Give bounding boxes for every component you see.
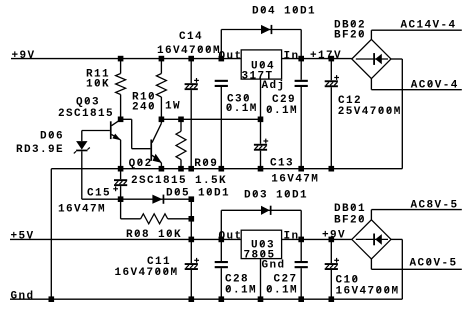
capacitor C13 [254, 119, 318, 185]
svg-text:D06: D06 [40, 131, 63, 143]
op-amp U03 regulator 7805 [241, 230, 281, 261]
svg-text:16V4700M: 16V4700M [336, 286, 399, 298]
wire DB02 top to AC14V-4 [371, 30, 461, 39]
wire DB01 top to AC8V-5 [371, 210, 461, 220]
svg-text:Q03: Q03 [76, 97, 99, 109]
wire DB01 right to Gnd rail [391, 239, 402, 299]
junction R08/C11 column [189, 216, 195, 222]
diode D04 [252, 6, 315, 35]
net label Gnd [11, 290, 34, 302]
net label AC14V-4 [401, 19, 456, 31]
svg-text:2SC1815 1.5K: 2SC1815 1.5K [131, 175, 226, 187]
svg-text:AC0V-4: AC0V-4 [411, 80, 458, 92]
svg-text:C13: C13 [270, 158, 293, 170]
svg-text:C14: C14 [179, 31, 202, 43]
svg-text:AC0V-5: AC0V-5 [410, 258, 457, 270]
capacitor C27 [266, 239, 308, 299]
wire +5V rail [10, 238, 241, 240]
svg-text:D05 10D1: D05 10D1 [166, 188, 229, 200]
pin In U04 [284, 51, 299, 63]
diode D03 [244, 190, 307, 215]
wire Q03 emitter down [120, 140, 122, 169]
wire DB02 right to top ground rail [391, 59, 402, 169]
junction Gnd/C27 [298, 296, 304, 302]
svg-text:+9V: +9V [12, 50, 35, 62]
junction Gnd/U03 pin [258, 296, 264, 302]
resistor R11 [86, 59, 126, 120]
pin Adj U04 [261, 79, 285, 119]
diode D03 loop wire [221, 210, 301, 239]
junction rail/R09 [178, 166, 184, 172]
wire DB01 bottom to AC0V-5 [371, 259, 461, 269]
wire Gnd rail [10, 298, 402, 300]
junction +17V/C12 [329, 56, 335, 62]
junction Gnd/top rail [49, 296, 55, 302]
svg-text:R09: R09 [194, 158, 217, 170]
junction C15/D05/R08 [118, 196, 124, 202]
pin Gnd U03 [261, 259, 285, 300]
svg-text:In: In [284, 51, 299, 63]
svg-text:16V4700M: 16V4700M [115, 267, 178, 279]
svg-text:AC8V-5: AC8V-5 [411, 199, 458, 211]
capacitor C30 [215, 80, 257, 169]
svg-text:Gnd: Gnd [262, 260, 285, 272]
svg-text:10K: 10K [86, 79, 109, 91]
capacitor C29 [266, 59, 308, 169]
junction rail/C13 [258, 166, 264, 172]
junction +9V/C14 [188, 56, 194, 62]
pin Out U03 [219, 231, 242, 243]
svg-text:1W: 1W [165, 101, 180, 113]
junction In/D03/C27 [298, 237, 304, 243]
svg-text:+17V: +17V [310, 50, 341, 62]
net label AC8V-5 [411, 199, 458, 211]
net label AC0V-5 [410, 258, 457, 270]
junction In/C10 [329, 237, 335, 243]
transistor Q03 [58, 97, 121, 141]
junction adj rail/R09 [178, 117, 184, 123]
svg-text:D04 10D1: D04 10D1 [252, 6, 315, 18]
junction R11/Q03 collector [118, 117, 124, 123]
junction rail/C15 [118, 166, 124, 172]
bridge rectifier DB01 [334, 203, 391, 259]
wire jog R11 node to Q02 base [121, 119, 151, 148]
net label +5V [11, 231, 34, 243]
svg-text:25V4700M: 25V4700M [338, 106, 401, 118]
wire In to bridge DB02 [282, 58, 352, 60]
capacitor C12 [325, 59, 401, 169]
transistor Q02 [129, 119, 226, 187]
junction D05/R08 right node [189, 196, 195, 202]
diode D04 loop wire [221, 30, 301, 59]
junction rail/C29 [298, 166, 304, 172]
svg-text:16V47M: 16V47M [58, 204, 105, 216]
resistor R08 [121, 199, 192, 241]
junction Gnd/C11 [189, 296, 195, 302]
svg-text:16V4700M: 16V4700M [157, 45, 220, 57]
junction rail/Q02 emitter [159, 166, 165, 172]
capacitor C15 [58, 169, 127, 216]
junction +9V/R11 [118, 56, 124, 62]
junction adj rail/C13 [258, 117, 264, 123]
junction adj rail/R10 [159, 117, 165, 123]
capacitor C28 [215, 239, 256, 299]
svg-text:Adj: Adj [262, 80, 285, 92]
junction +5V/D03 [219, 237, 225, 243]
wire DB02 bottom to AC0V-4 [371, 79, 461, 90]
wire +9V rail [11, 58, 241, 60]
junction +17V/D04 [298, 56, 304, 62]
zener diode D06 [16, 131, 90, 200]
svg-text:RD3.9E: RD3.9E [16, 144, 63, 156]
junction rail/C12 [329, 166, 335, 172]
resistor R09 [176, 119, 217, 170]
pin Out U04 [219, 51, 242, 63]
capacitor C14 [157, 31, 220, 169]
svg-text:D03 10D1: D03 10D1 [244, 190, 307, 202]
svg-text:In: In [284, 231, 299, 243]
bridge rectifier DB02 [334, 19, 391, 78]
svg-text:16V47M: 16V47M [271, 174, 318, 186]
svg-text:C15: C15 [87, 187, 110, 199]
op-amp U04 regulator 317T [241, 50, 281, 83]
net label AC0V-4 [411, 80, 458, 92]
svg-text:240: 240 [132, 102, 155, 114]
junction rail/C30 [219, 166, 225, 172]
wire In to bridge DB01 [282, 238, 352, 240]
svg-text:DB01: DB01 [334, 203, 365, 215]
capacitor C11 [115, 239, 200, 299]
junction Gnd/C10 [329, 296, 335, 302]
wire adj rail [161, 118, 260, 120]
wire rail to Gnd [50, 169, 52, 300]
svg-text:Out: Out [219, 51, 242, 63]
svg-text:Gnd: Gnd [11, 290, 34, 302]
junction +5V/C11 [189, 237, 195, 243]
diode D05 [121, 188, 229, 204]
junction rail/C14 [188, 166, 194, 172]
junction Gnd/C28 [219, 296, 225, 302]
net label +9V [12, 50, 35, 62]
junction +9V/R10 [159, 56, 165, 62]
wire D06 anode to R08 node [82, 198, 121, 200]
wire Q03 base [82, 130, 110, 132]
net label +9V unregulated [322, 229, 345, 241]
svg-text:+5V: +5V [11, 231, 34, 243]
pin In U03 [284, 231, 299, 243]
wire top ground rail [51, 168, 402, 170]
resistor R10 [132, 59, 180, 120]
capacitor C10 [325, 239, 399, 299]
junction +9V/D04 [219, 56, 225, 62]
net label +17V [310, 50, 341, 62]
